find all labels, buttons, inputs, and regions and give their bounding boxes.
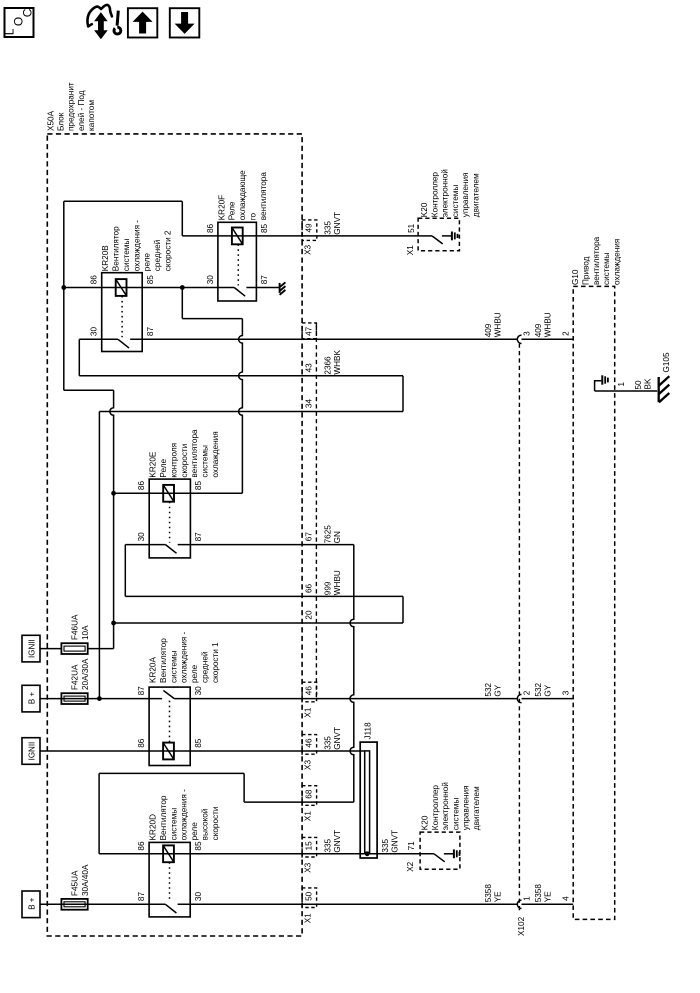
- svg-text:30: 30: [194, 892, 203, 902]
- connector pin 15 dashed box: [302, 837, 317, 857]
- svg-text:X3: X3: [304, 862, 313, 872]
- svg-text:электронной: электронной: [441, 169, 450, 217]
- svg-text:X3: X3: [304, 244, 313, 254]
- terminal IGNII: [22, 635, 40, 662]
- X102 inline connector dashed line: [518, 344, 520, 912]
- svg-text:охлаждения: охлаждения: [613, 239, 622, 285]
- connector X3 pin 49 dashed box: [302, 220, 317, 241]
- svg-text:охлаждающе: охлаждающе: [238, 170, 247, 220]
- svg-text:охлаждения -: охлаждения -: [132, 220, 141, 271]
- svg-text:системы: системы: [122, 239, 131, 272]
- up-arrow button: [128, 8, 157, 37]
- svg-text:скорости: скорости: [180, 444, 189, 478]
- wire 2366 WHBK row 43: [79, 375, 403, 377]
- ECM K20 bottom internal ground: [453, 849, 455, 858]
- svg-text:B +: B +: [28, 692, 37, 705]
- svg-text:15: 15: [305, 841, 314, 851]
- svg-text:71: 71: [407, 841, 416, 851]
- svg-text:капотом: капотом: [87, 100, 96, 131]
- wire 335 GNVT KR20D-85 to K20 pin71: [149, 853, 434, 855]
- svg-text:85: 85: [260, 223, 269, 233]
- wrench: [114, 27, 121, 34]
- ECM K20 top internal ground: [451, 232, 453, 241]
- fuse F42UA: [61, 693, 87, 704]
- connector X102 on 409 WHBU: [517, 335, 521, 343]
- svg-text:335: 335: [324, 838, 333, 852]
- ECM K20 top internal switch: [418, 235, 432, 237]
- svg-text:Вентилятор: Вентилятор: [159, 638, 168, 683]
- wire 5358 YE KR20D-30 to G10 pin4: [178, 903, 518, 905]
- fuse F46UA: [61, 643, 87, 654]
- svg-text:GNVT: GNVT: [333, 830, 342, 853]
- svg-text:K20: K20: [420, 202, 429, 217]
- connector pin 46 dashed box: [302, 735, 317, 755]
- svg-text:10A: 10A: [81, 625, 90, 640]
- svg-text:999: 999: [324, 581, 333, 595]
- svg-text:85: 85: [146, 275, 155, 285]
- svg-text:30: 30: [137, 532, 146, 542]
- connector pin 46 dashed box: [302, 682, 317, 702]
- wire 999 WHBU row 66: [125, 595, 403, 597]
- wire link row r7: [64, 389, 114, 391]
- wire vertical 7625 GN to row 68: [350, 545, 354, 803]
- svg-text:IGNII: IGNII: [28, 742, 37, 761]
- svg-text:KR20E: KR20E: [149, 451, 158, 477]
- ECM K20 (bottom) dashed box: [420, 832, 460, 869]
- ECM K20 (top) dashed box: [418, 218, 459, 250]
- relay KR20D: [149, 842, 190, 917]
- wire vertical loop 43-34: [402, 376, 404, 412]
- svg-text:85: 85: [194, 738, 203, 748]
- node junction KR20F-30 branch: [180, 285, 185, 290]
- switch arm KR20A: [163, 691, 174, 699]
- wire vertical to KR20F-86: [181, 201, 183, 236]
- LOC button box: [5, 8, 34, 37]
- node junction row 20: [111, 621, 116, 626]
- nav blob icon (freeform outline with double arrow and wrench): [87, 5, 111, 26]
- wire row 34: [99, 411, 403, 413]
- svg-text:2: 2: [561, 331, 570, 336]
- svg-text:охлаждения: охлаждения: [211, 431, 220, 477]
- svg-text:30: 30: [90, 327, 99, 337]
- svg-text:KR20A: KR20A: [149, 657, 158, 683]
- svg-text:335: 335: [324, 221, 333, 235]
- svg-text:KR20D: KR20D: [149, 814, 158, 840]
- svg-text:охлаждения -: охлаждения -: [180, 632, 189, 683]
- svg-text:скорости: скорости: [211, 807, 220, 841]
- svg-text:68: 68: [305, 789, 314, 799]
- svg-text:GY: GY: [544, 684, 553, 696]
- svg-text:20: 20: [305, 610, 314, 620]
- wire vertical v1: [63, 201, 65, 390]
- connector pin 50 dashed box: [302, 888, 317, 908]
- wire 532 GY KR20A-30 to G10 pin3: [174, 698, 517, 700]
- svg-text:скорости 1: скорости 1: [211, 642, 220, 683]
- wire B+ F45UA to KR20D-87: [40, 903, 165, 905]
- svg-text:предохранит: предохранит: [67, 82, 76, 131]
- svg-text:87: 87: [260, 275, 269, 285]
- svg-text:X102: X102: [517, 916, 526, 936]
- svg-text:50: 50: [305, 891, 314, 901]
- wire vertical KR20F-30 down: [181, 288, 183, 319]
- svg-text:вентилятора: вентилятора: [190, 429, 199, 478]
- svg-text:335: 335: [381, 838, 390, 852]
- terminal IGNII: [22, 738, 40, 765]
- svg-text:средней: средней: [153, 240, 162, 271]
- svg-text:X1: X1: [304, 811, 313, 821]
- svg-text:F45UA: F45UA: [71, 870, 80, 896]
- svg-text:GN: GN: [333, 531, 342, 543]
- svg-text:WHBU: WHBU: [333, 570, 342, 595]
- svg-text:87: 87: [137, 892, 146, 902]
- svg-text:409: 409: [534, 323, 543, 337]
- wire 335 GNVT KR20A-85 to J118: [149, 750, 365, 752]
- down-arrow button: [170, 8, 200, 37]
- node junction KR20E-86: [111, 491, 116, 496]
- svg-text:Реле: Реле: [228, 201, 237, 220]
- svg-text:IGNII: IGNII: [28, 639, 37, 658]
- ground signal inside G10: [601, 375, 603, 384]
- svg-text:управления: управления: [462, 786, 471, 831]
- wire vertical KR20E-30 down: [124, 545, 126, 597]
- svg-text:GNVT: GNVT: [333, 212, 342, 235]
- wire vertical v10: [243, 773, 245, 802]
- wire KR20B-30 left: [118, 339, 129, 348]
- svg-text:30A/40A: 30A/40A: [81, 864, 90, 896]
- wire KR20D-86 left: [99, 853, 149, 855]
- svg-text:WHBU: WHBU: [494, 312, 503, 337]
- svg-text:5358: 5358: [484, 884, 493, 903]
- svg-text:GY: GY: [494, 684, 503, 696]
- svg-text:C: C: [20, 8, 34, 17]
- wire F46UA feed row: [40, 648, 114, 650]
- wire 409 WHBU KR20B-87 to G10 pin2: [130, 338, 517, 340]
- svg-text:Реле: Реле: [159, 458, 168, 477]
- double-headed arrow: [95, 13, 107, 38]
- svg-text:Привод: Привод: [581, 256, 590, 285]
- svg-text:WHBK: WHBK: [333, 349, 342, 374]
- svg-text:87: 87: [146, 327, 155, 337]
- wire vertical loop 66-20: [402, 596, 404, 623]
- svg-text:86: 86: [206, 223, 215, 233]
- wire vertical v3 to F42UA node: [98, 412, 100, 699]
- connector X102 on 532 GY: [517, 694, 521, 702]
- svg-text:системы: системы: [451, 185, 460, 218]
- svg-text:J118: J118: [364, 722, 373, 740]
- svg-text:87: 87: [194, 532, 203, 542]
- wire B+ F42UA to KR20A-87: [40, 698, 162, 700]
- svg-text:Вентилятор: Вентилятор: [159, 795, 168, 840]
- connector column dashed line 2: [315, 323, 317, 701]
- wire link row top: [64, 200, 183, 202]
- connector pin 68 dashed box: [302, 786, 317, 806]
- svg-text:X50A: X50A: [47, 110, 56, 131]
- svg-text:3: 3: [561, 690, 570, 695]
- svg-text:реле: реле: [143, 253, 152, 272]
- svg-text:Контроллер: Контроллер: [431, 785, 440, 831]
- svg-text:7625: 7625: [324, 525, 333, 544]
- svg-text:X1: X1: [304, 913, 313, 923]
- svg-text:43: 43: [305, 363, 314, 373]
- svg-text:электронной: электронной: [441, 782, 450, 830]
- svg-text:го: го: [249, 212, 258, 220]
- svg-text:B +: B +: [28, 897, 37, 910]
- ECM K20 bottom internal switch: [434, 854, 445, 862]
- relay KR20F: [218, 222, 257, 301]
- relay KR20A: [149, 687, 190, 765]
- svg-text:Контроллер: Контроллер: [430, 172, 439, 218]
- svg-text:G105: G105: [662, 352, 671, 372]
- svg-text:1: 1: [522, 896, 531, 901]
- svg-text:X1: X1: [304, 707, 313, 717]
- svg-text:335: 335: [324, 736, 333, 750]
- wire row 68: [244, 801, 354, 803]
- ground G105 chassis: [658, 377, 660, 402]
- svg-text:KR20B: KR20B: [101, 245, 110, 271]
- svg-text:532: 532: [534, 682, 543, 696]
- svg-text:K20: K20: [421, 815, 430, 830]
- wire KR20B coil row to KR20F-30: [234, 288, 245, 297]
- ground chassis at KR20F-87: [279, 283, 281, 293]
- svg-text:системы: системы: [201, 445, 210, 478]
- svg-text:скорости 2: скорости 2: [164, 230, 173, 271]
- svg-text:F46UA: F46UA: [71, 614, 80, 640]
- svg-text:WHBU: WHBU: [544, 312, 553, 337]
- wire link row r4: [182, 318, 242, 320]
- svg-text:X3: X3: [304, 760, 313, 770]
- svg-text:управления: управления: [461, 173, 470, 218]
- svg-text:двигателем: двигателем: [472, 173, 481, 217]
- svg-text:86: 86: [90, 275, 99, 285]
- svg-text:5358: 5358: [534, 884, 543, 903]
- node junction v1/KR20B-86: [61, 285, 66, 290]
- svg-text:532: 532: [484, 682, 493, 696]
- svg-text:86: 86: [137, 481, 146, 491]
- connector X102 on 5358 YE: [517, 900, 521, 908]
- svg-text:системы: системы: [451, 798, 460, 831]
- svg-text:20A/30A: 20A/30A: [81, 658, 90, 690]
- terminal B +: [22, 891, 40, 918]
- wire G10 pin1 ground 50 BK: [595, 381, 602, 391]
- wire vertical v11 to KR20D-86: [98, 773, 100, 853]
- svg-text:F42UA: F42UA: [71, 664, 80, 690]
- svg-text:4: 4: [561, 896, 570, 901]
- node junction F42UA/KR20A-87: [97, 696, 102, 701]
- svg-text:елей - Под: елей - Под: [77, 90, 86, 131]
- wire KR20F-87 to ground: [246, 287, 278, 289]
- svg-text:BK: BK: [644, 378, 653, 389]
- svg-text:409: 409: [484, 323, 493, 337]
- svg-text:контроля: контроля: [169, 443, 178, 478]
- svg-text:средней: средней: [201, 652, 210, 683]
- relay KR20B: [102, 273, 143, 352]
- svg-text:вентилятора: вентилятора: [592, 236, 601, 285]
- svg-text:49: 49: [305, 223, 314, 233]
- wire vertical KR20B-30 down: [78, 339, 80, 376]
- svg-text:L: L: [3, 28, 17, 35]
- svg-text:Вентилятор: Вентилятор: [112, 226, 121, 271]
- svg-text:87: 87: [137, 686, 146, 696]
- svg-text:системы: системы: [169, 650, 178, 683]
- svg-text:34: 34: [305, 399, 314, 409]
- svg-text:двигателем: двигателем: [472, 786, 481, 830]
- svg-text:46: 46: [305, 686, 314, 696]
- svg-text:47: 47: [305, 326, 314, 336]
- wire row 20: [114, 622, 403, 624]
- svg-text:системы: системы: [169, 808, 178, 841]
- wire link row r16: [99, 772, 244, 774]
- svg-text:X2: X2: [406, 861, 415, 871]
- svg-text:G10: G10: [571, 269, 580, 285]
- wire vertical v4 with hop over row 34: [110, 390, 114, 648]
- svg-text:50: 50: [634, 380, 643, 390]
- svg-text:66: 66: [305, 583, 314, 593]
- wire IGNII to KR20A-86 coil row: [40, 750, 149, 752]
- svg-text:30: 30: [194, 686, 203, 696]
- svg-text:YE: YE: [494, 891, 503, 902]
- svg-text:KR20F: KR20F: [217, 195, 226, 220]
- svg-text:85: 85: [194, 481, 203, 491]
- svg-text:86: 86: [137, 841, 146, 851]
- svg-text:GNVT: GNVT: [391, 830, 400, 853]
- svg-text:3: 3: [522, 331, 531, 336]
- relay KR20E: [149, 479, 190, 558]
- fuse block X50A dashed outline: [47, 134, 302, 936]
- wire 7625 GN KR20E-87 right: [178, 544, 354, 546]
- wire 335 GNVT KR20F-86 row: [182, 235, 418, 237]
- svg-text:67: 67: [305, 532, 314, 542]
- terminal B +: [22, 685, 40, 712]
- svg-text:системы: системы: [602, 252, 611, 285]
- svg-text:51: 51: [407, 223, 416, 233]
- fuse F45UA: [61, 899, 87, 910]
- svg-text:Блок: Блок: [57, 112, 66, 131]
- svg-text:86: 86: [137, 738, 146, 748]
- svg-text:YE: YE: [544, 891, 553, 902]
- svg-text:реле: реле: [190, 664, 199, 683]
- svg-text:вентилятора: вентилятора: [259, 172, 268, 221]
- jumper J118 busbar: [360, 742, 377, 858]
- svg-text:2: 2: [522, 690, 531, 695]
- svg-text:1: 1: [617, 382, 626, 387]
- wire vertical v7 KR20F-30 to KR20E-85 with hops: [239, 319, 243, 494]
- svg-text:охлаждения -: охлаждения -: [180, 789, 189, 840]
- G10 fan drive dashed box: [573, 286, 615, 919]
- node junction J118 on row 15: [365, 851, 370, 856]
- svg-text:GNVT: GNVT: [333, 727, 342, 750]
- svg-text:высокой: высокой: [201, 809, 210, 841]
- svg-text:30: 30: [206, 275, 215, 285]
- svg-text:46: 46: [305, 738, 314, 748]
- svg-text:X1: X1: [406, 245, 415, 255]
- svg-text:реле: реле: [190, 822, 199, 841]
- svg-text:2366: 2366: [324, 356, 333, 375]
- connector pin 47 dashed box: [302, 323, 316, 339]
- svg-text:85: 85: [194, 841, 203, 851]
- wire KR20E-30 left: [125, 544, 165, 546]
- wire KR20E-86/85 coil row: [114, 492, 243, 494]
